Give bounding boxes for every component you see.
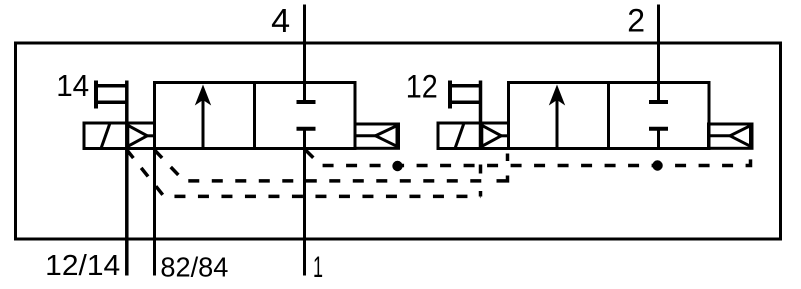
blocked port symbol (bottom T bar) — [297, 127, 316, 131]
pilot triangle stub valve 1 — [147, 134, 155, 137]
pilot line 82/84 to valve 2 — [155, 150, 494, 181]
port 14 bracket bottom line — [96, 101, 127, 105]
valve 2 flow arrow head — [549, 85, 565, 106]
svg-text:4: 4 — [271, 2, 290, 39]
pilot triangle stub valve 2 — [501, 134, 509, 137]
solenoid coil box valve 2 — [438, 123, 509, 149]
pilot line corner at valve 2 — [497, 176, 508, 181]
svg-text:82/84: 82/84 — [160, 252, 228, 283]
port 2 line — [657, 5, 660, 103]
valve 1 flow arrow stem — [202, 98, 205, 149]
valve 2 flow arrow stem — [556, 98, 559, 149]
enclosure (sub-base) border — [16, 43, 781, 239]
port 12 bracket bottom line — [450, 101, 481, 105]
solenoid divider vertical valve 2 — [479, 81, 483, 149]
svg-text:1: 1 — [313, 251, 323, 284]
pilot triangle valve 2 — [482, 125, 501, 146]
valve 2 body divider — [607, 83, 610, 149]
port 1 line — [303, 149, 306, 276]
solenoid diagonal valve 2 — [455, 123, 464, 149]
blocked port stem — [303, 129, 306, 149]
svg-text:14: 14 — [56, 68, 89, 103]
valve 1 flow arrow head — [195, 85, 211, 106]
valve 1 body — [155, 83, 356, 149]
port 14 bracket top line — [96, 84, 127, 88]
pilot branch vertical segment 1 — [479, 165, 483, 174]
pilot line 82/84 vertical — [153, 83, 156, 276]
pilot triangle valve 1 — [128, 125, 147, 146]
return triangle valve 2 — [730, 126, 751, 147]
blocked port 2 symbol (top T bar) — [649, 100, 668, 104]
blocked port 4 symbol (top T bar) — [297, 100, 316, 104]
valve 2 body — [509, 83, 710, 149]
pilot supply line from port 1 — [306, 150, 751, 166]
svg-text:2: 2 — [627, 2, 645, 38]
valve 1 body divider — [253, 83, 256, 149]
svg-text:12/14: 12/14 — [45, 250, 120, 282]
junction dot A — [392, 161, 402, 171]
blocked port stem valve 2 — [657, 129, 660, 149]
return triangle stub valve 2 — [709, 134, 731, 137]
pilot line stub to valve 2 junction — [506, 154, 510, 162]
return triangle valve 1 — [376, 126, 398, 147]
return pilot box valve 2 — [709, 124, 753, 148]
pilot branch vertical segment 3 — [479, 191, 483, 197]
blocked port symbol valve 2 (bottom T bar) — [649, 127, 668, 131]
pilot line 12/14 vertical — [125, 81, 129, 276]
return pilot box valve 1 — [355, 124, 399, 148]
pilot line 12/14 — [127, 150, 481, 197]
port 12 bracket top line — [450, 84, 481, 88]
port 12 bracket left bar — [448, 81, 452, 109]
svg-text:12: 12 — [406, 68, 438, 104]
port 14 bracket left bar — [94, 81, 98, 109]
junction dot B — [652, 160, 662, 170]
port 4 line — [303, 5, 306, 103]
solenoid coil box valve 1 — [84, 123, 155, 149]
return triangle stub valve 1 — [355, 134, 377, 137]
solenoid diagonal valve 1 — [101, 123, 110, 149]
